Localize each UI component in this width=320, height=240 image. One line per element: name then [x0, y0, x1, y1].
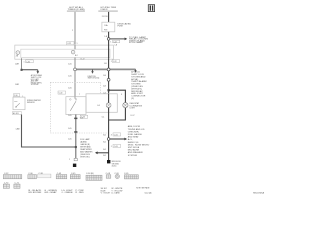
junction dot bottom: [75, 146, 77, 148]
node: splice circle + right arrow (y139): [107, 138, 110, 141]
svg-text:1-05: 1-05: [68, 76, 72, 78]
svg-text:1-05: 1-05: [68, 128, 72, 130]
label: left bottom list text: [80, 138, 93, 159]
connector C-34: [86, 173, 102, 181]
connector label 1 C-22 (main exit): [111, 60, 120, 64]
svg-text:F18: F18: [104, 29, 107, 31]
connector C-70: [3, 182, 9, 188]
wire: line A into right box: [74, 97, 76, 99]
svg-text:MG2 AUNE: MG2 AUNE: [128, 149, 140, 152]
svg-text:C-05: C-05: [114, 134, 118, 136]
svg-text:ABS, DOOR: ABS, DOOR: [128, 125, 141, 128]
svg-text:C-22: C-22: [113, 61, 117, 63]
wire: left arrow (y152.8): [95, 151, 109, 154]
wire: line A below right box: [75, 115, 77, 159]
lamp: meter illumination light: [97, 103, 111, 108]
connector C-43: [56, 173, 67, 179]
label: A/T control text: [31, 74, 43, 86]
svg-text:0-3: 0-3: [97, 105, 100, 107]
connector label C-22 (line A, box entry): [66, 42, 77, 46]
svg-text:2-R 1B: 2-R 1B: [102, 16, 108, 18]
svg-text:FUEL GAUGE: FUEL GAUGE: [128, 133, 143, 136]
wire: left line down and across bottom: [22, 115, 76, 148]
svg-text:SWITCH (IG1): SWITCH (IG1): [88, 78, 100, 80]
label: ignition switch text: [88, 76, 100, 80]
power feed header B (HOT AT ALL TIMES): [98, 6, 118, 12]
svg-text:1-05: 1-05: [68, 115, 72, 117]
svg-text:1: 1: [24, 61, 25, 63]
ground terminal (line A end): [69, 158, 77, 167]
label: wire color legend: [29, 186, 152, 194]
node: splice circle (line A / thick feed): [74, 68, 77, 71]
svg-text:C-34 (B): C-34 (B): [86, 173, 94, 175]
svg-text:LIGHT: LIGHT: [130, 108, 136, 110]
svg-text:SM-1805A: SM-1805A: [253, 192, 265, 195]
connector label C-22 (main line, box entry): [110, 40, 119, 47]
connector C-32: [3, 173, 22, 179]
power feed header A (HOT AT ALL TIMES): [67, 6, 85, 12]
wire: thick feed right end arrow down: [134, 69, 137, 72]
svg-text:WITH LHD): WITH LHD): [80, 157, 90, 159]
svg-text:2: 2: [72, 30, 73, 32]
svg-text:R : RED: R : RED: [76, 192, 85, 194]
svg-text:1: 1: [111, 61, 112, 63]
svg-text:M-2: M-2: [75, 55, 78, 57]
wire: bypass return: [109, 108, 126, 120]
ground terminal (main line end): [107, 160, 110, 163]
lamp: rheostat illumination light: [123, 103, 128, 108]
svg-text:1-BR: 1-BR: [15, 64, 20, 66]
svg-text:1-05: 1-05: [68, 87, 72, 89]
svg-text:AND WASHER: AND WASHER: [128, 151, 143, 154]
terminal circle 2 (left line): [16, 51, 20, 55]
wire: thick feed line to right: [76, 68, 135, 70]
svg-text:SYSTEM: SYSTEM: [128, 155, 137, 157]
label: to tail lamp relay text: [129, 36, 149, 44]
svg-text:J/B: J/B: [16, 56, 18, 58]
combination meter box: [86, 94, 117, 113]
svg-text:54-2 (A): 54-2 (A): [145, 192, 152, 195]
connector label below meter: [80, 115, 88, 119]
splice tick 2: [74, 131, 77, 133]
svg-text:C-30: C-30: [26, 61, 30, 63]
svg-text:SENSOR: SENSOR: [27, 102, 35, 104]
svg-text:B-1: B-1: [103, 134, 106, 136]
connector C-71: [14, 182, 20, 188]
svg-text:FUSE: FUSE: [118, 26, 124, 28]
wire: feed B vertical (main line x108.6 upper): [108, 12, 110, 22]
wire: left line from junction block: [21, 58, 23, 70]
svg-text:C-30: C-30: [14, 95, 18, 97]
wire: main line through meter: [108, 94, 110, 103]
wire: branch arrow down at x92.5: [91, 69, 94, 73]
svg-text:1-B: 1-B: [115, 45, 117, 47]
svg-text:GROUND: GROUND: [112, 163, 120, 165]
connector C-05: [124, 173, 138, 179]
svg-text:D-17: D-17: [131, 115, 135, 117]
connector label 3 C-05 (dashed exit): [111, 133, 121, 137]
svg-text:0-1: 0-1: [102, 117, 105, 119]
svg-text:A+5,: A+5,: [128, 138, 133, 141]
node: splice circle on main line: [107, 38, 110, 41]
svg-text:V : VIOLET: V : VIOLET: [101, 193, 111, 195]
wire: line A through junction block: [74, 45, 76, 49]
svg-text:TRUNK AND LID: TRUNK AND LID: [128, 128, 145, 131]
svg-text:GR: GRAY: GR: GRAY: [44, 191, 58, 194]
svg-text:1: 1: [111, 146, 112, 148]
svg-text:3: 3: [111, 134, 112, 136]
svg-text:2: 2: [17, 53, 18, 55]
svg-text:NOTE: SEE PAGE: NOTE: SEE PAGE: [136, 186, 150, 189]
connector C-30: [28, 173, 37, 179]
svg-text:1: 1: [110, 41, 111, 43]
svg-text:7: 7: [79, 94, 80, 96]
svg-text:B-1: B-1: [103, 142, 106, 144]
svg-text:SNT NOCA: SNT NOCA: [128, 146, 140, 149]
wire: branch arrow to tail lamp relay: [110, 38, 127, 41]
svg-text:B-1: B-1: [103, 149, 106, 151]
svg-text:MIDDLE NO.: MIDDLE NO.: [112, 161, 122, 163]
svg-text:8: 8: [121, 94, 122, 96]
connector C-08: [106, 173, 111, 178]
wire: bypass to rheostat lamp: [109, 90, 126, 102]
label: rheostat text: [130, 102, 143, 117]
connector label below sensor: [12, 112, 21, 115]
svg-text:B-1: B-1: [103, 155, 106, 157]
svg-text:SYSTEM: SYSTEM: [31, 84, 39, 86]
connector label 1 C-30: [24, 60, 34, 63]
svg-text:1-05: 1-05: [68, 138, 72, 140]
wire: main line below junction block: [108, 58, 110, 93]
node: splice circle on main line y79.8: [107, 78, 110, 81]
svg-text:(B-15): (B-15): [112, 165, 117, 167]
junction block inner bus box: [21, 49, 110, 57]
wire: main line through junction block: [108, 45, 110, 59]
label: right feed list text: [131, 71, 146, 100]
wire: feed A vertical (line x75 upper): [74, 12, 76, 45]
wire: left branch arrow down: [22, 70, 40, 74]
switch: vehicle speed sensor box (left): [13, 97, 25, 110]
node: splice circle (main line / thick feed): [107, 68, 110, 71]
splice tick 1: [74, 118, 77, 120]
fuse F18 box: [102, 22, 115, 32]
wire: line A below junction block: [74, 58, 76, 97]
dashed box: A/T control unit boundary: [50, 82, 108, 133]
svg-text:AND SEAT: AND SEAT: [128, 136, 139, 139]
svg-text:1: 1: [22, 96, 23, 98]
svg-text:RADIO 3,6: RADIO 3,6: [128, 141, 139, 144]
svg-text:1-BR: 1-BR: [15, 84, 20, 86]
svg-text:1-05: 1-05: [68, 64, 72, 66]
junction dot on left line: [21, 69, 23, 71]
svg-text:BR: BROWN: BR: BROWN: [29, 192, 43, 194]
connector label (right box top): [58, 91, 80, 96]
wire: main line below fuse: [108, 32, 110, 45]
svg-text:1 C-22: 1 C-22: [80, 59, 85, 61]
svg-text:C-30: C-30: [59, 93, 63, 95]
svg-text:2: 2: [69, 159, 70, 161]
switch: A/T control unit box (right): [66, 97, 86, 115]
terminal circle 2 (line A): [71, 50, 75, 54]
svg-text:C-05: C-05: [114, 146, 118, 148]
svg-text:(3): (3): [131, 98, 134, 100]
connector label C-30 (sensor top): [13, 94, 23, 98]
junction dot + lamp bypass branch: [108, 89, 110, 91]
svg-text:S-01: S-01: [80, 117, 83, 119]
connector round C-20: [114, 173, 119, 179]
label: right bottom list text: [128, 125, 150, 157]
label: ground name: [112, 161, 122, 167]
svg-text:LL: DARK: LL: DARK: [111, 192, 120, 195]
junction block box: [15, 45, 114, 59]
svg-text:C-22: C-22: [113, 41, 117, 43]
svg-text:2: 2: [73, 52, 74, 54]
connector C-38: [38, 173, 51, 178]
label: speedometer text: [27, 100, 41, 104]
svg-text:O : ORANGE: O : ORANGE: [62, 191, 74, 194]
connector label 1 C-05: [111, 144, 121, 148]
connector C-45: [70, 173, 80, 179]
connector view icon: [148, 5, 154, 12]
